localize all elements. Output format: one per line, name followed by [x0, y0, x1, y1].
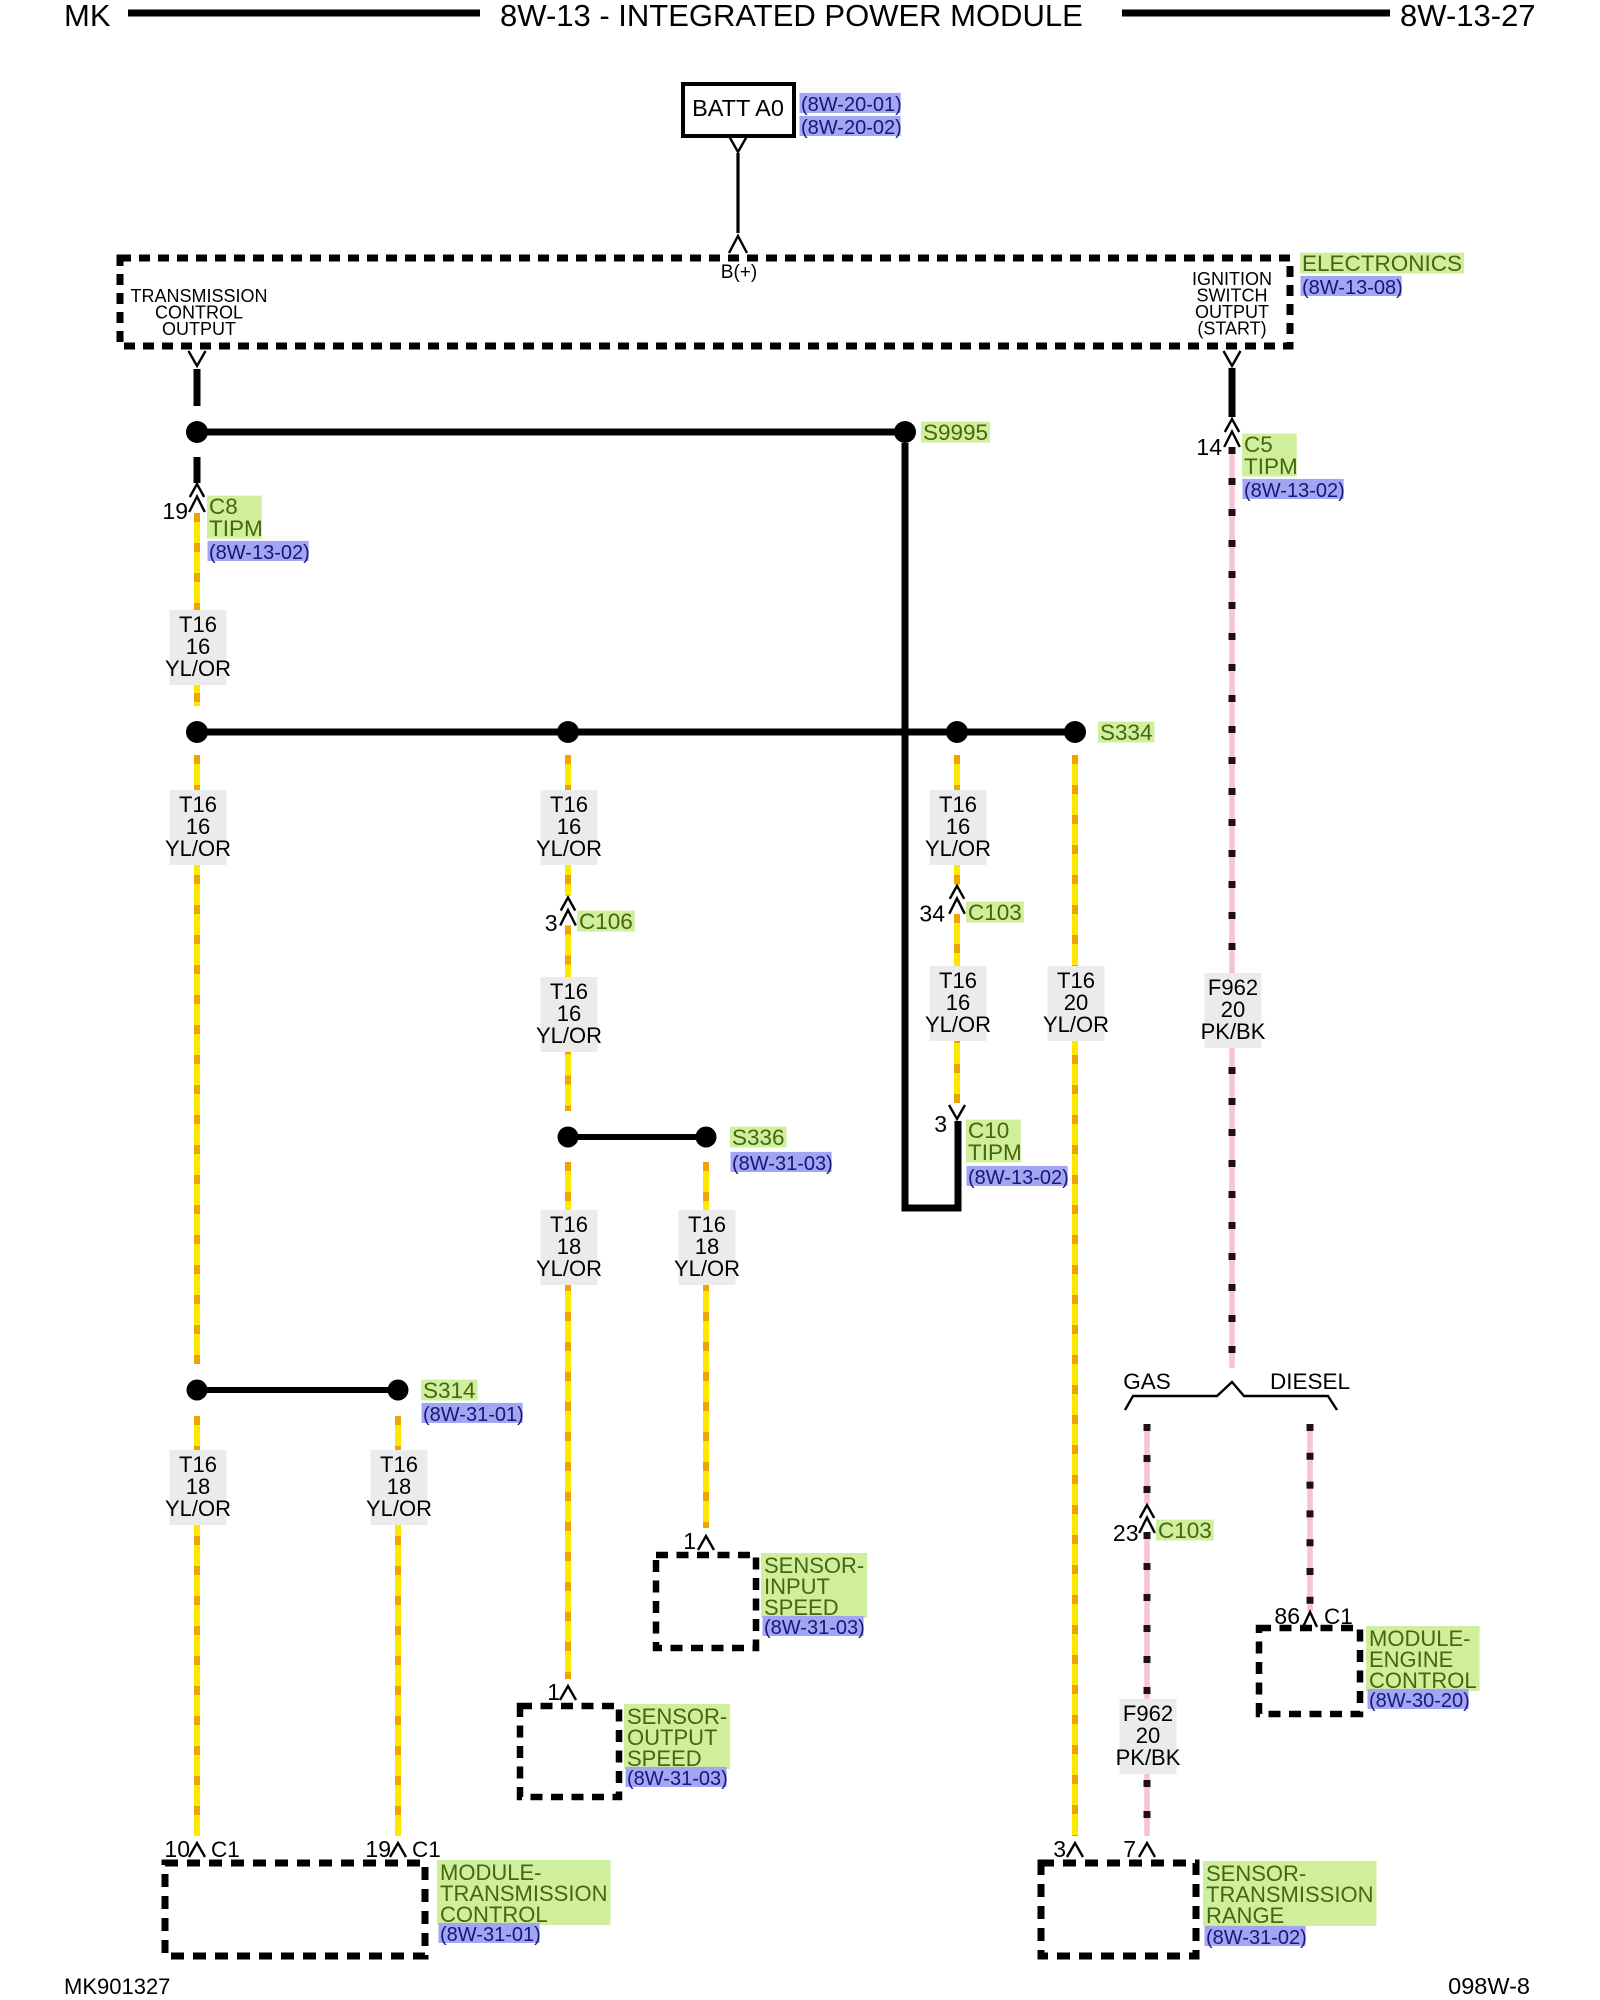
svg-text:TIPM: TIPM	[209, 516, 263, 541]
svg-text:YL/OR: YL/OR	[536, 836, 602, 861]
sensor output speed dashed box	[520, 1706, 619, 1797]
svg-text:23: 23	[1113, 1520, 1139, 1546]
brace gas diesel split	[1125, 1382, 1337, 1410]
svg-text:(8W-13-02): (8W-13-02)	[209, 542, 310, 564]
svg-text:PK/BK: PK/BK	[1116, 1745, 1181, 1770]
junction dot S336 right	[696, 1127, 717, 1148]
sensor input speed dashed box	[656, 1555, 756, 1648]
svg-text:RANGE: RANGE	[1206, 1903, 1284, 1928]
reference (8W-31-03)	[731, 1152, 832, 1172]
connector label C10 TIPM	[966, 1120, 1021, 1163]
label TRANSMISSION CONTROL OUTPUT	[130, 286, 267, 339]
svg-text:8W-13 - INTEGRATED POWER MODUL: 8W-13 - INTEGRATED POWER MODULE	[500, 0, 1083, 33]
chevron into transmission range sensor right	[1139, 1843, 1155, 1857]
svg-text:(8W-31-01): (8W-31-01)	[440, 1924, 541, 1946]
svg-text:(8W-13-08): (8W-13-08)	[1302, 277, 1403, 299]
wire pink diesel branch	[1307, 1424, 1313, 1611]
svg-text:(8W-31-02): (8W-31-02)	[1206, 1927, 1307, 1949]
svg-text:8W-13-27: 8W-13-27	[1400, 0, 1536, 33]
svg-text:(8W-20-01): (8W-20-01)	[801, 94, 902, 116]
integrated power module dashed box	[120, 258, 1290, 346]
label IGNITION SWITCH OUTPUT (START)	[1192, 269, 1272, 339]
svg-text:YL/OR: YL/OR	[925, 836, 991, 861]
reference (8W-20-02)	[800, 116, 901, 136]
reference (8W-30-20)	[1368, 1689, 1469, 1709]
splice label S9995	[921, 422, 990, 443]
svg-text:GAS: GAS	[1123, 1369, 1171, 1394]
svg-text:YL/OR: YL/OR	[536, 1023, 602, 1048]
wire label T16 20 YL/OR	[1048, 966, 1105, 1041]
reference (8W-13-02)	[208, 541, 309, 561]
wire yellow col4 upper from S334	[954, 755, 960, 885]
reference (8W-31-01)	[422, 1403, 523, 1423]
svg-text:C1: C1	[211, 1837, 240, 1862]
connector label C103 gas	[1156, 1520, 1214, 1541]
svg-text:PK/BK: PK/BK	[1201, 1019, 1266, 1044]
chevron into input speed sensor	[698, 1536, 714, 1550]
chevron into module pin 10	[189, 1843, 205, 1857]
splice bus S9995	[197, 429, 905, 436]
label SENSOR-OUTPUT SPEED	[624, 1704, 730, 1769]
wire label T16 16 YL/OR col4	[930, 790, 987, 865]
label MODULE-TRANSMISSION CONTROL	[437, 1860, 611, 1925]
svg-text:C103: C103	[968, 900, 1022, 925]
svg-text:(8W-31-03): (8W-31-03)	[764, 1617, 865, 1639]
svg-text:DIESEL: DIESEL	[1270, 1369, 1350, 1394]
junction dot S9995 left	[186, 421, 208, 443]
svg-text:YL/OR: YL/OR	[674, 1256, 740, 1281]
svg-text:7: 7	[1123, 1836, 1136, 1862]
wire pink F962 main	[1229, 447, 1235, 1368]
wire label F962 20 PK/BK	[1205, 973, 1262, 1048]
reference (8W-31-02)	[1205, 1926, 1306, 1946]
wire yellow col5 transmission range	[1072, 755, 1078, 1836]
module transmission control dashed box	[165, 1863, 425, 1956]
connector C5 double chevron	[1225, 419, 1239, 432]
svg-text:S314: S314	[423, 1378, 476, 1403]
svg-text:(8W-30-20): (8W-30-20)	[1369, 1690, 1470, 1712]
junction dot S314 right	[388, 1380, 409, 1401]
wire black S9995 to C10	[905, 443, 958, 1208]
svg-text:(8W-31-01): (8W-31-01)	[423, 1404, 524, 1426]
chevron into output speed sensor	[560, 1686, 576, 1700]
chevron below IPM box right exit	[1224, 351, 1241, 366]
svg-text:YL/OR: YL/OR	[165, 1496, 231, 1521]
splice bus S336	[568, 1134, 706, 1140]
svg-text:S9995: S9995	[923, 420, 988, 445]
connector label C5 TIPM	[1242, 434, 1297, 477]
wire label T16 16 YL/OR col4 lower	[930, 966, 987, 1041]
wire yellow T16 col1 mid S334 to S314	[194, 755, 200, 1364]
reference (8W-31-03) output speed	[626, 1767, 727, 1787]
svg-text:C106: C106	[579, 909, 633, 934]
svg-text:34: 34	[919, 901, 945, 927]
junction dot S334 x=957	[946, 721, 968, 743]
wire yellow col1 to module	[194, 1416, 200, 1836]
wire label T16 16 YL/OR col1 lower	[170, 790, 227, 865]
splice label S314	[421, 1380, 478, 1401]
svg-text:YL/OR: YL/OR	[165, 836, 231, 861]
svg-text:OUTPUT: OUTPUT	[162, 319, 236, 339]
wire pink gas branch upper	[1144, 1424, 1150, 1504]
chevron into transmission range sensor left	[1067, 1843, 1083, 1857]
wire yellow col4 lower	[954, 914, 960, 1103]
svg-text:TIPM: TIPM	[1244, 454, 1298, 479]
sensor transmission range dashed box	[1041, 1863, 1196, 1956]
svg-text:BATT A0: BATT A0	[692, 95, 784, 121]
label MODULE-ENGINE CONTROL	[1366, 1626, 1480, 1691]
chevron into engine control module	[1303, 1612, 1317, 1627]
svg-text:(8W-13-02): (8W-13-02)	[968, 1167, 1069, 1189]
wire black from IPM to S9995	[194, 369, 201, 406]
svg-text:YL/OR: YL/OR	[536, 1256, 602, 1281]
svg-text:MK901327: MK901327	[64, 1974, 170, 1999]
svg-text:S336: S336	[732, 1125, 785, 1150]
chevron into module pin 19	[390, 1843, 406, 1857]
wire BATT A0 to IPM	[736, 153, 739, 233]
label SENSOR-INPUT SPEED	[761, 1553, 867, 1618]
wire yellow T16 col1 upper	[194, 513, 200, 706]
wire label T16 16 YL/OR col3 lower	[541, 977, 598, 1052]
svg-text:14: 14	[1196, 434, 1222, 460]
label SENSOR-TRANSMISSION RANGE	[1203, 1861, 1377, 1926]
svg-text:(8W-31-03): (8W-31-03)	[627, 1768, 728, 1790]
wire label T16 18 YL/OR output speed	[541, 1210, 598, 1285]
splice bus S334	[197, 729, 1075, 736]
svg-text:(START): (START)	[1197, 319, 1266, 339]
svg-text:(8W-20-02): (8W-20-02)	[801, 117, 902, 139]
connector C8 double chevron	[190, 484, 204, 497]
svg-text:YL/OR: YL/OR	[366, 1496, 432, 1521]
svg-text:3: 3	[934, 1111, 947, 1137]
connector chevron above IPM box	[729, 236, 747, 253]
wire label T16 18 YL/OR col1	[170, 1450, 227, 1525]
wire yellow output speed branch	[565, 1162, 571, 1679]
wire yellow col3 upper from S334	[565, 755, 571, 896]
connector label C106	[577, 911, 635, 932]
connector label C8 TIPM	[207, 496, 262, 539]
wire yellow input speed branch	[703, 1162, 709, 1528]
svg-text:TIPM: TIPM	[968, 1140, 1022, 1165]
splice label S334	[1098, 722, 1155, 743]
wire label T16 18 YL/OR col2	[371, 1450, 428, 1525]
header rule left	[128, 10, 480, 17]
connector label C103	[966, 902, 1024, 923]
connector C103 double chevron	[950, 886, 964, 899]
junction dot S9995 right	[894, 421, 916, 443]
svg-text:B(+): B(+)	[721, 262, 757, 283]
svg-text:YL/OR: YL/OR	[165, 656, 231, 681]
junction dot S334 x=1075	[1064, 721, 1086, 743]
header rule right	[1122, 10, 1390, 17]
battery feed BATT A0	[683, 84, 794, 136]
svg-text:YL/OR: YL/OR	[1043, 1012, 1109, 1037]
svg-text:(8W-31-03): (8W-31-03)	[732, 1153, 833, 1175]
svg-text:3: 3	[1053, 1836, 1066, 1862]
wire black from IPM to C5	[1229, 368, 1236, 417]
svg-text:1: 1	[547, 1679, 560, 1705]
junction dot S314 left	[187, 1380, 208, 1401]
svg-text:YL/OR: YL/OR	[925, 1012, 991, 1037]
svg-text:3: 3	[545, 910, 558, 936]
connector chevron below BATT box	[730, 137, 747, 152]
chevron into C10	[949, 1105, 965, 1119]
wire black below S9995 dot	[194, 457, 201, 483]
wire label T16 16 YL/OR col1 upper	[170, 610, 227, 685]
chevron below IPM box left exit	[189, 351, 206, 366]
svg-text:ELECTRONICS: ELECTRONICS	[1302, 251, 1462, 276]
svg-text:1: 1	[683, 1528, 696, 1554]
splice bus S314	[197, 1387, 398, 1393]
reference (8W-13-08)	[1301, 276, 1402, 296]
wire pink gas branch lower	[1144, 1532, 1150, 1836]
svg-text:MK: MK	[64, 0, 111, 33]
reference (8W-13-02) at C10	[967, 1166, 1068, 1186]
splice label S336	[730, 1127, 787, 1148]
svg-text:10: 10	[164, 1836, 190, 1862]
reference (8W-20-01)	[800, 93, 901, 113]
module engine control dashed box	[1259, 1628, 1360, 1714]
label ELECTRONICS	[1300, 253, 1464, 274]
reference (8W-13-02) at C5	[1243, 479, 1344, 499]
wire label T16 16 YL/OR col3	[541, 790, 598, 865]
svg-text:098W-8: 098W-8	[1448, 1973, 1530, 1999]
junction dot S334 x=568	[557, 721, 579, 743]
junction dot S336 left	[558, 1127, 579, 1148]
svg-text:(8W-13-02): (8W-13-02)	[1244, 480, 1345, 502]
wire label T16 18 YL/OR input speed	[679, 1210, 736, 1285]
wire yellow col2 S314 to module	[395, 1416, 401, 1836]
svg-text:S334: S334	[1100, 720, 1153, 745]
svg-text:C1: C1	[412, 1837, 441, 1862]
svg-text:C103: C103	[1158, 1518, 1212, 1543]
wire label F962 20 PK/BK gas	[1120, 1699, 1177, 1774]
reference (8W-31-01) lower	[439, 1923, 540, 1943]
reference (8W-31-03) input speed	[763, 1616, 864, 1636]
svg-text:19: 19	[162, 498, 188, 524]
junction dot S334 x=197	[186, 721, 208, 743]
connector C103 gas double chevron	[1140, 1505, 1154, 1518]
connector C106 double chevron	[561, 898, 575, 911]
svg-text:19: 19	[365, 1836, 391, 1862]
wire yellow col3 lower to S336	[565, 926, 571, 1112]
